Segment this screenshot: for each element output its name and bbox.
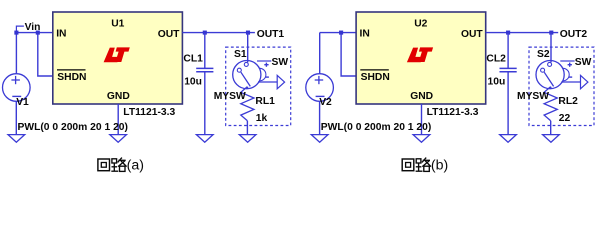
svg-text:OUT1: OUT1: [257, 29, 285, 40]
svg-text:(a): (a): [127, 158, 144, 174]
circuit cell A: [2, 12, 290, 142]
svg-text:OUT2: OUT2: [560, 29, 588, 40]
svg-text:RL2: RL2: [558, 96, 578, 107]
svg-text:CL2: CL2: [486, 54, 506, 65]
svg-text:22: 22: [559, 113, 571, 124]
svg-text:Vin: Vin: [25, 22, 41, 33]
svg-text:1k: 1k: [256, 113, 268, 124]
svg-text:S1: S1: [234, 49, 247, 60]
svg-text:V1: V1: [16, 97, 29, 108]
circuit cell B: [306, 12, 594, 142]
svg-text:RL1: RL1: [255, 96, 275, 107]
node Vin flag: [16, 26, 24, 32]
svg-text:(b): (b): [431, 158, 448, 174]
svg-text:U1: U1: [111, 19, 124, 30]
svg-text:U2: U2: [414, 19, 427, 30]
svg-text:S2: S2: [537, 49, 550, 60]
svg-text:V2: V2: [319, 97, 332, 108]
junction vin: [14, 31, 18, 35]
svg-text:CL1: CL1: [183, 54, 203, 65]
caption 回路(b): [402, 159, 414, 171]
caption 回路(a): [98, 159, 110, 171]
